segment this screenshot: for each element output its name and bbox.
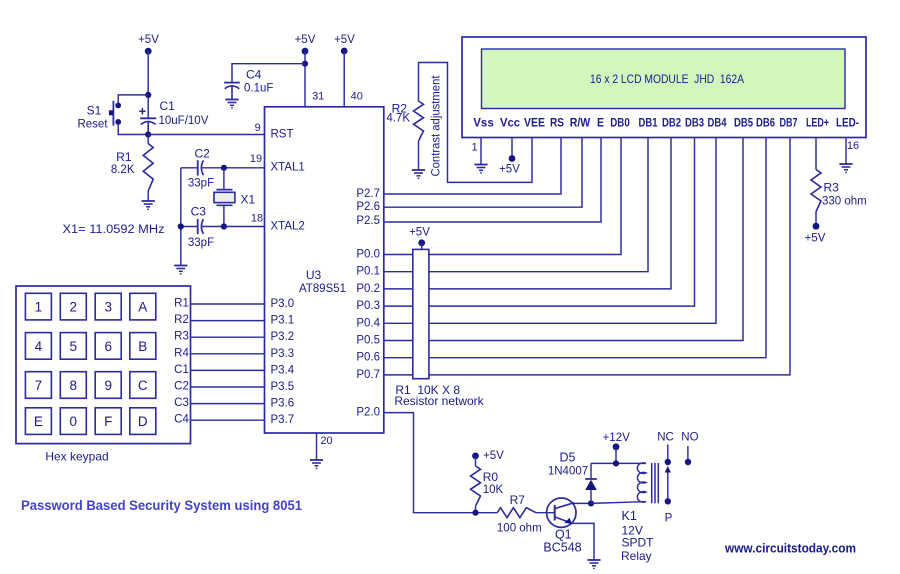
svg-text:R4: R4: [174, 347, 189, 359]
junction: [472, 510, 478, 516]
wire (P0.7 stub): [384, 374, 413, 376]
key 1: [25, 293, 51, 320]
svg-text:R0: R0: [483, 470, 499, 484]
svg-text:C: C: [138, 378, 148, 393]
svg-text:330 ohm: 330 ohm: [822, 196, 867, 208]
svg-text:R2: R2: [174, 314, 189, 326]
svg-text:Vcc: Vcc: [500, 116, 520, 130]
svg-text:P0.1: P0.1: [356, 266, 380, 278]
svg-text:1N4007: 1N4007: [548, 465, 588, 477]
wire (DB2 to P0.2): [429, 138, 671, 289]
svg-text:DB3: DB3: [685, 116, 704, 130]
svg-text:P0.7: P0.7: [356, 369, 380, 381]
key C: [130, 372, 156, 399]
svg-text:P3.4: P3.4: [271, 364, 295, 376]
svg-text:+5V: +5V: [805, 233, 826, 245]
svg-text:C2: C2: [174, 381, 189, 393]
capacitor C1 10uF/10V: [139, 99, 209, 134]
wire (collector): [574, 502, 591, 505]
wire (keypad R1 to P3.0): [191, 303, 265, 305]
svg-text:P3.5: P3.5: [271, 381, 295, 393]
svg-text:D5: D5: [560, 451, 576, 465]
capacitor C4 0.1uF: [224, 68, 273, 99]
svg-text:LED-: LED-: [836, 116, 859, 130]
svg-text:R/W: R/W: [570, 116, 591, 130]
wire (keypad C3 to P3.6): [191, 403, 265, 405]
power +5V (reset rail): [138, 34, 159, 55]
svg-text:16: 16: [847, 140, 859, 152]
wire (keypad R4 to P3.3): [191, 353, 265, 355]
svg-text:F: F: [104, 414, 112, 429]
svg-text:RST: RST: [271, 129, 294, 141]
svg-text:P0.5: P0.5: [356, 335, 380, 347]
svg-text:7: 7: [35, 378, 43, 393]
power +12V: [603, 432, 631, 463]
svg-text:C4: C4: [174, 414, 189, 426]
wire (P0.5 stub): [384, 340, 413, 342]
svg-text:40: 40: [351, 91, 363, 103]
svg-text:VEE: VEE: [524, 116, 545, 130]
wire (keypad C4 to P3.7): [191, 419, 265, 421]
svg-text:DB0: DB0: [610, 116, 630, 130]
key 2: [60, 293, 86, 320]
wire (P2.x to LCD): [384, 138, 561, 195]
wire (DB6 to P0.6): [429, 138, 766, 358]
wire: [147, 51, 149, 118]
wire (DB3 to P0.3): [429, 138, 695, 307]
diode D5 1N4007: [548, 451, 597, 504]
key 0: [60, 408, 86, 435]
svg-text:R7: R7: [510, 493, 526, 507]
svg-text:P0.4: P0.4: [356, 317, 380, 329]
junction: [221, 223, 227, 229]
switch S1 Reset: [77, 101, 121, 131]
svg-text:P3.1: P3.1: [271, 315, 295, 327]
svg-text:9: 9: [104, 378, 112, 393]
wire (P0.0 stub): [384, 254, 413, 256]
svg-text:C2: C2: [195, 147, 211, 161]
svg-text:R1: R1: [174, 298, 189, 310]
svg-text:Password Based Security System: Password Based Security System using 805…: [21, 498, 302, 513]
power +5V (resistor network): [409, 226, 430, 249]
svg-text:Relay: Relay: [621, 549, 652, 563]
wire (to RST pin 9): [148, 134, 264, 136]
svg-text:P2.5: P2.5: [356, 215, 380, 227]
svg-text:B: B: [138, 339, 147, 354]
power +5V (pin 40): [334, 34, 355, 54]
wire (P0.1 stub): [384, 271, 413, 273]
svg-text:+5V: +5V: [499, 164, 520, 176]
wire (keypad R2 to P3.1): [191, 320, 265, 322]
svg-text:R1: R1: [116, 150, 132, 164]
svg-text:+: +: [139, 104, 147, 119]
ground: [839, 164, 852, 173]
svg-text:19: 19: [250, 153, 262, 165]
wire (DB0 to P0.0): [429, 138, 621, 255]
wire (relay top): [591, 462, 644, 464]
key D: [130, 408, 156, 435]
svg-text:P3.6: P3.6: [271, 398, 295, 410]
wire (P0.4 stub): [384, 322, 413, 324]
svg-text:DB7: DB7: [780, 116, 798, 130]
svg-text:X1= 11.0592 MHz: X1= 11.0592 MHz: [63, 224, 165, 236]
svg-text:33pF: 33pF: [188, 237, 214, 249]
junction: [302, 61, 308, 67]
wire: [118, 95, 148, 103]
ground: [587, 560, 600, 569]
svg-text:DB2: DB2: [662, 116, 681, 130]
svg-text:10uF/10V: 10uF/10V: [159, 115, 209, 127]
wire (P0.2 stub): [384, 288, 413, 290]
svg-text:C3: C3: [174, 397, 189, 409]
svg-text:C4: C4: [246, 68, 262, 82]
resistor network R1 10K X 8: [394, 249, 484, 408]
wire (P2.x to LCD): [384, 138, 601, 223]
svg-text:18: 18: [251, 212, 263, 224]
svg-text:BC548: BC548: [543, 540, 581, 554]
svg-text:DB6: DB6: [756, 116, 775, 130]
wire (LED-): [845, 138, 847, 165]
svg-text:XTAL1: XTAL1: [271, 161, 305, 173]
LCD pin labels: [473, 116, 859, 130]
svg-text:C1: C1: [174, 364, 189, 376]
svg-text:E: E: [597, 116, 604, 130]
wire: [118, 124, 148, 134]
LCD module 16 x 2 JHD 162A: [462, 37, 866, 138]
IC U3 AT89S51: [265, 107, 384, 433]
svg-text:+5V: +5V: [138, 34, 159, 46]
svg-text:+5V: +5V: [409, 226, 430, 238]
svg-text:4.7K: 4.7K: [386, 113, 410, 125]
wire (base): [536, 512, 555, 514]
svg-text:4: 4: [35, 339, 43, 354]
svg-text:8.2K: 8.2K: [111, 164, 135, 176]
key A: [130, 293, 156, 320]
ground: [142, 201, 155, 210]
svg-text:P0.3: P0.3: [356, 300, 380, 312]
svg-text:3: 3: [104, 300, 112, 315]
svg-text:www.circuitstoday.com: www.circuitstoday.com: [724, 541, 856, 556]
junction: [221, 165, 227, 171]
wire (relay top into coil): [644, 462, 647, 464]
wire (keypad R3 to P3.2): [191, 336, 265, 338]
svg-text:Contrast adjustment: Contrast adjustment: [430, 75, 442, 177]
svg-text:P3.3: P3.3: [271, 348, 295, 360]
svg-text:P3.2: P3.2: [271, 331, 295, 343]
wire (relay bottom to collector junction): [591, 502, 646, 504]
junction: [178, 223, 184, 229]
svg-text:RS: RS: [550, 116, 564, 130]
wire (DB4 to P0.4): [429, 138, 716, 324]
svg-text:0.1uF: 0.1uF: [244, 82, 273, 94]
key E: [25, 408, 51, 435]
wire (DB1 to P0.1): [429, 138, 648, 272]
svg-text:R3: R3: [174, 331, 189, 343]
key 7: [25, 372, 51, 399]
key 4: [25, 333, 51, 360]
key B: [130, 333, 156, 360]
power +5V (Vcc): [499, 138, 520, 176]
wire (emitter to ground): [571, 523, 595, 560]
wire: [232, 64, 305, 83]
svg-text:Reset: Reset: [77, 119, 108, 131]
wire (DB7 to P0.7): [429, 138, 790, 375]
resistor R2 4.7K contrast pot: [386, 101, 423, 170]
svg-text:9: 9: [255, 122, 261, 134]
svg-text:P2.0: P2.0: [356, 407, 380, 419]
svg-text:+5V: +5V: [295, 34, 316, 46]
ground: [225, 100, 238, 109]
junction: [145, 92, 151, 98]
svg-text:2: 2: [70, 300, 78, 315]
key 9: [95, 372, 121, 399]
ground: [474, 165, 487, 174]
wire (keypad C1 to P3.4): [191, 369, 265, 371]
svg-text:P3.0: P3.0: [271, 298, 295, 310]
wire (pin 20): [316, 433, 318, 460]
keypad row/column node labels: [174, 298, 189, 426]
key 5: [60, 333, 86, 360]
svg-text:C3: C3: [191, 205, 207, 219]
svg-text:K1: K1: [622, 509, 637, 523]
wire (Vss): [480, 138, 482, 165]
wire (DB5 to P0.5): [429, 138, 743, 341]
wire (P2.x to LCD): [384, 138, 582, 208]
svg-text:NC: NC: [657, 432, 674, 444]
relay pole P: [665, 466, 673, 524]
svg-text:20: 20: [320, 435, 332, 447]
resistor R1 8.2K: [111, 135, 153, 202]
key 6: [95, 333, 121, 360]
svg-text:100 ohm: 100 ohm: [497, 523, 542, 535]
contact NO: [681, 432, 698, 465]
relay K1 coil: [637, 463, 646, 502]
svg-text:DB4: DB4: [708, 116, 727, 130]
key F: [95, 408, 121, 435]
svg-text:SPDT: SPDT: [622, 536, 655, 550]
resistor R3 330 ohm: [811, 138, 867, 227]
svg-text:+5V: +5V: [483, 450, 504, 462]
resistor R0 10K: [471, 456, 504, 513]
svg-text:0: 0: [70, 414, 78, 429]
junction: [588, 500, 594, 506]
svg-text:6: 6: [104, 339, 112, 354]
junction: [145, 131, 151, 137]
svg-text:S1: S1: [87, 104, 102, 118]
svg-text:P0.6: P0.6: [356, 352, 380, 364]
svg-text:31: 31: [312, 90, 324, 102]
svg-text:D: D: [138, 414, 148, 429]
svg-text:5: 5: [70, 339, 78, 354]
svg-text:Hex keypad: Hex keypad: [45, 450, 108, 464]
wire (pin 31): [304, 51, 306, 107]
wire (pin 40): [343, 51, 345, 107]
capacitor C3 33pF: [181, 205, 265, 249]
svg-text:DB5: DB5: [734, 116, 753, 130]
wire (VEE to contrast pot): [419, 63, 533, 183]
svg-text:P3.7: P3.7: [271, 414, 295, 426]
wire (P0.3 stub): [384, 305, 413, 307]
svg-text:LED+: LED+: [806, 116, 829, 130]
svg-text:NO: NO: [681, 432, 698, 444]
svg-text:1: 1: [471, 142, 477, 154]
svg-text:U3: U3: [306, 268, 322, 282]
svg-text:1: 1: [35, 300, 43, 315]
svg-text:XTAL2: XTAL2: [271, 220, 305, 232]
svg-text:Resistor network: Resistor network: [394, 394, 484, 408]
crystal X1: [214, 168, 256, 227]
capacitor C2 33pF: [181, 147, 265, 190]
ground: [174, 266, 187, 275]
resistor R7 100 ohm: [497, 493, 542, 535]
svg-text:C1: C1: [160, 99, 176, 113]
svg-text:P2.7: P2.7: [356, 188, 380, 200]
svg-text:16 x 2 LCD MODULE JHD 162A: 16 x 2 LCD MODULE JHD 162A: [590, 72, 744, 86]
ground: [310, 460, 323, 469]
key 3: [95, 293, 121, 320]
wire (crystal ground rail): [180, 168, 182, 266]
svg-text:10K: 10K: [483, 484, 504, 496]
svg-text:8: 8: [70, 378, 78, 393]
svg-text:R3: R3: [824, 181, 840, 195]
wire (P0.6 stub): [384, 357, 413, 359]
svg-text:E: E: [34, 414, 43, 429]
svg-text:DB1: DB1: [639, 116, 658, 130]
power +5V (LED+): [805, 223, 826, 245]
wire (keypad C2 to P3.5): [191, 386, 265, 388]
contact NC: [657, 432, 674, 466]
relay core: [652, 463, 659, 503]
transistor Q1 BC548: [543, 498, 581, 554]
svg-text:P2.6: P2.6: [356, 201, 380, 213]
svg-text:P0.2: P0.2: [356, 283, 380, 295]
power +5V (pin 31): [295, 34, 316, 55]
svg-text:+5V: +5V: [334, 34, 355, 46]
svg-text:Vss: Vss: [473, 116, 494, 130]
svg-text:AT89S51: AT89S51: [299, 283, 346, 295]
power +5V (R0): [472, 450, 504, 462]
hex keypad: [16, 286, 191, 444]
svg-text:P0.0: P0.0: [356, 249, 380, 261]
wire (P2.0 to base): [384, 413, 497, 513]
key 8: [60, 372, 86, 399]
ground: [412, 170, 425, 179]
relay labels K1 12V SPDT Relay: [621, 509, 654, 563]
svg-text:X1: X1: [241, 192, 256, 206]
svg-text:P: P: [665, 512, 673, 524]
svg-text:A: A: [138, 300, 147, 315]
svg-text:+12V: +12V: [603, 432, 631, 444]
junction: [613, 460, 619, 466]
svg-text:33pF: 33pF: [188, 178, 214, 190]
